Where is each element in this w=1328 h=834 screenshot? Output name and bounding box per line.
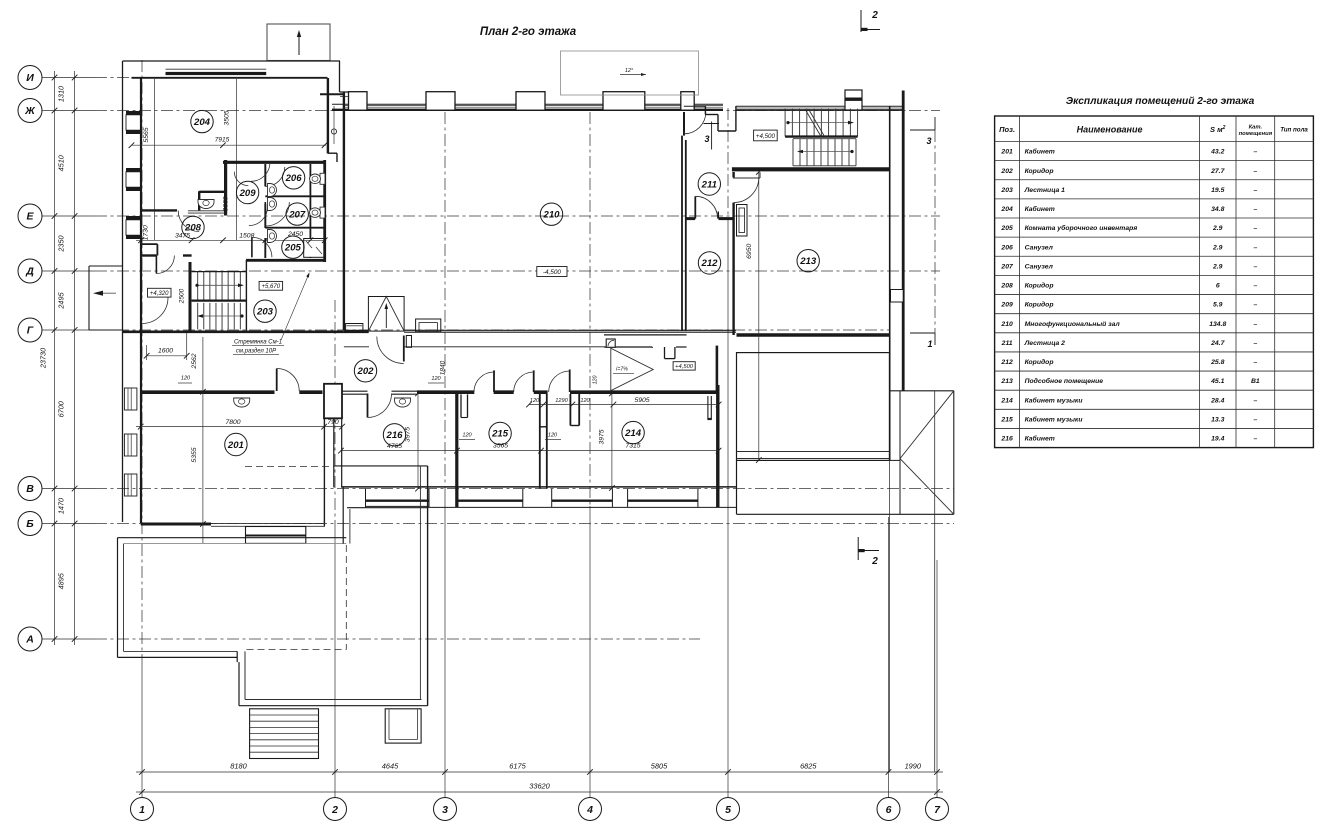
svg-text:Кабинет музыки: Кабинет музыки <box>1025 396 1084 404</box>
svg-text:4510: 4510 <box>57 155 66 171</box>
svg-text:Поз.: Поз. <box>999 125 1015 134</box>
svg-text:Экспликация помещений 2-го эта: Экспликация помещений 2-го этажа <box>1066 96 1255 107</box>
svg-text:204: 204 <box>193 117 211 128</box>
svg-text:33620: 33620 <box>529 782 550 791</box>
svg-text:6175: 6175 <box>509 762 526 771</box>
svg-text:7915: 7915 <box>215 137 230 144</box>
svg-text:1310: 1310 <box>57 86 66 102</box>
svg-text:–: – <box>1253 263 1257 270</box>
svg-text:45.1: 45.1 <box>1210 378 1224 385</box>
svg-text:–: – <box>1253 244 1257 251</box>
svg-text:28.4: 28.4 <box>1210 397 1224 404</box>
svg-text:–: – <box>1253 302 1257 309</box>
svg-text:204: 204 <box>1000 206 1013 213</box>
svg-text:8180: 8180 <box>230 762 247 771</box>
svg-text:Коридор: Коридор <box>1025 167 1054 175</box>
svg-text:211: 211 <box>701 179 717 190</box>
svg-text:208: 208 <box>184 223 202 234</box>
svg-text:134.8: 134.8 <box>1209 321 1226 328</box>
svg-text:Кабинет: Кабинет <box>1025 205 1055 213</box>
svg-text:120: 120 <box>462 433 472 439</box>
svg-text:Кат.: Кат. <box>1249 124 1263 130</box>
svg-text:212: 212 <box>1000 359 1013 366</box>
svg-text:–: – <box>1253 206 1257 213</box>
svg-text:213: 213 <box>799 256 817 267</box>
svg-text:2495: 2495 <box>57 291 66 309</box>
svg-text:помещения: помещения <box>1239 131 1273 137</box>
svg-text:2350: 2350 <box>57 235 66 252</box>
svg-text:210: 210 <box>1000 321 1013 328</box>
svg-text:208: 208 <box>1000 283 1013 290</box>
svg-text:2.9: 2.9 <box>1212 244 1223 251</box>
svg-text:23730: 23730 <box>39 348 48 369</box>
svg-text:Лестница 1: Лестница 1 <box>1024 187 1066 194</box>
svg-text:5.9: 5.9 <box>1213 302 1223 309</box>
svg-text:Многофункциональный зал: Многофункциональный зал <box>1025 320 1121 328</box>
svg-text:12°: 12° <box>625 68 634 74</box>
svg-text:см.раздел 10Р: см.раздел 10Р <box>236 349 276 355</box>
svg-text:Подсобное помещение: Подсобное помещение <box>1025 377 1104 385</box>
svg-text:Санузел: Санузел <box>1025 244 1054 251</box>
svg-text:–: – <box>1253 397 1257 404</box>
svg-text:Е: Е <box>26 211 34 223</box>
svg-text:202: 202 <box>1000 168 1013 175</box>
svg-text:Санузел: Санузел <box>1025 263 1054 270</box>
svg-text:2: 2 <box>871 556 878 567</box>
svg-text:+4,320: +4,320 <box>150 291 169 297</box>
svg-text:+4,500: +4,500 <box>675 364 694 370</box>
svg-text:3: 3 <box>926 136 931 146</box>
svg-text:1: 1 <box>139 804 145 816</box>
svg-text:5805: 5805 <box>651 762 668 771</box>
svg-text:214: 214 <box>1000 397 1013 404</box>
svg-text:4895: 4895 <box>57 572 66 589</box>
svg-text:6700: 6700 <box>57 401 66 417</box>
svg-text:План 2-го этажа: План 2-го этажа <box>480 26 577 38</box>
svg-text:2: 2 <box>331 804 338 816</box>
svg-text:В: В <box>26 483 34 495</box>
svg-text:2562: 2562 <box>191 353 198 369</box>
svg-text:7: 7 <box>934 804 941 816</box>
svg-text:6825: 6825 <box>800 762 817 771</box>
svg-text:Стремянка См-1: Стремянка См-1 <box>234 340 282 346</box>
svg-text:–: – <box>1253 283 1257 290</box>
svg-text:Наименование: Наименование <box>1077 124 1143 134</box>
svg-text:120: 120 <box>530 398 540 404</box>
svg-text:2: 2 <box>871 10 878 21</box>
svg-text:3505: 3505 <box>224 110 231 125</box>
svg-text:5355: 5355 <box>191 447 198 462</box>
svg-text:6: 6 <box>1216 283 1220 290</box>
svg-text:1600: 1600 <box>158 348 173 355</box>
svg-text:Тип пола: Тип пола <box>1280 126 1308 133</box>
svg-text:-4,500: -4,500 <box>543 269 562 276</box>
svg-text:Кабинет музыки: Кабинет музыки <box>1025 415 1084 423</box>
svg-text:203: 203 <box>256 307 274 318</box>
svg-text:2.9: 2.9 <box>1212 225 1223 232</box>
svg-text:203: 203 <box>1000 187 1013 194</box>
svg-text:i=7%: i=7% <box>616 367 628 373</box>
svg-text:201: 201 <box>1000 149 1013 156</box>
svg-text:4645: 4645 <box>382 762 399 771</box>
svg-text:206: 206 <box>285 173 303 184</box>
svg-text:216: 216 <box>385 430 403 441</box>
svg-text:2500: 2500 <box>179 288 186 304</box>
svg-text:4: 4 <box>586 804 593 816</box>
svg-text:В1: В1 <box>1251 378 1260 385</box>
svg-text:207: 207 <box>1000 263 1014 270</box>
svg-text:А: А <box>25 634 34 646</box>
svg-text:Комната уборочного инвентаря: Комната уборочного инвентаря <box>1025 224 1138 232</box>
svg-text:207: 207 <box>288 209 306 220</box>
svg-text:211: 211 <box>1001 340 1013 347</box>
svg-text:1290: 1290 <box>555 398 568 404</box>
svg-text:120: 120 <box>580 398 590 404</box>
svg-text:25.8: 25.8 <box>1210 359 1224 366</box>
svg-text:5905: 5905 <box>634 397 649 404</box>
svg-text:3975: 3975 <box>599 429 606 444</box>
svg-text:213: 213 <box>1000 378 1013 385</box>
svg-text:205: 205 <box>284 243 302 254</box>
svg-text:790: 790 <box>327 419 339 426</box>
svg-text:210: 210 <box>542 210 560 221</box>
svg-text:–: – <box>1253 416 1257 423</box>
svg-text:Д: Д <box>25 266 34 278</box>
svg-text:216: 216 <box>1000 436 1013 443</box>
svg-text:120: 120 <box>593 376 599 385</box>
svg-text:6950: 6950 <box>746 244 753 259</box>
svg-text:–: – <box>1253 340 1257 347</box>
svg-text:1990: 1990 <box>905 762 922 771</box>
svg-text:Кабинет: Кабинет <box>1025 148 1055 156</box>
svg-text:209: 209 <box>1000 302 1013 309</box>
svg-text:6: 6 <box>886 804 892 816</box>
svg-text:–: – <box>1253 321 1257 328</box>
svg-text:214: 214 <box>624 428 642 439</box>
svg-text:34.8: 34.8 <box>1211 206 1224 213</box>
svg-text:Ж: Ж <box>24 105 36 117</box>
svg-text:120: 120 <box>181 376 191 382</box>
svg-text:1840: 1840 <box>440 360 447 375</box>
svg-text:3: 3 <box>704 134 709 144</box>
svg-text:–: – <box>1253 168 1257 175</box>
svg-text:3: 3 <box>442 804 448 816</box>
svg-text:120: 120 <box>431 376 441 382</box>
svg-text:215: 215 <box>491 429 509 440</box>
svg-text:Кабинет: Кабинет <box>1025 435 1055 443</box>
svg-text:43.2: 43.2 <box>1210 149 1224 156</box>
svg-text:19.5: 19.5 <box>1211 187 1224 194</box>
svg-text:1730: 1730 <box>143 225 150 240</box>
svg-text:201: 201 <box>227 440 244 451</box>
svg-text:+4,500: +4,500 <box>756 133 776 140</box>
svg-text:202: 202 <box>356 366 374 377</box>
svg-text:–: – <box>1253 149 1257 156</box>
svg-text:Коридор: Коридор <box>1025 282 1054 290</box>
svg-text:Коридор: Коридор <box>1025 358 1054 366</box>
svg-text:–: – <box>1253 359 1257 366</box>
svg-text:7800: 7800 <box>225 419 240 426</box>
svg-text:13.3: 13.3 <box>1211 416 1224 423</box>
svg-text:+5,670: +5,670 <box>262 284 281 290</box>
svg-text:1470: 1470 <box>57 498 66 514</box>
svg-text:Лестница 2: Лестница 2 <box>1024 340 1066 347</box>
svg-text:19.4: 19.4 <box>1211 436 1224 443</box>
svg-text:209: 209 <box>239 188 257 199</box>
svg-text:206: 206 <box>1000 244 1013 251</box>
svg-text:5: 5 <box>725 804 731 816</box>
svg-text:205: 205 <box>1000 225 1013 232</box>
svg-text:120: 120 <box>548 433 558 439</box>
svg-text:–: – <box>1253 436 1257 443</box>
svg-text:–: – <box>1253 187 1257 194</box>
svg-text:Г: Г <box>27 325 34 337</box>
svg-text:–: – <box>1253 225 1257 232</box>
svg-text:24.7: 24.7 <box>1210 340 1225 347</box>
svg-text:215: 215 <box>1000 416 1013 423</box>
svg-text:S м2: S м2 <box>1210 125 1226 134</box>
svg-text:212: 212 <box>700 258 718 269</box>
svg-text:5565: 5565 <box>143 127 150 142</box>
svg-text:2.9: 2.9 <box>1212 263 1223 270</box>
svg-text:1: 1 <box>927 339 932 349</box>
svg-text:Б: Б <box>26 518 34 530</box>
svg-text:И: И <box>26 72 34 84</box>
svg-text:Коридор: Коридор <box>1025 301 1054 309</box>
svg-text:27.7: 27.7 <box>1210 168 1225 175</box>
